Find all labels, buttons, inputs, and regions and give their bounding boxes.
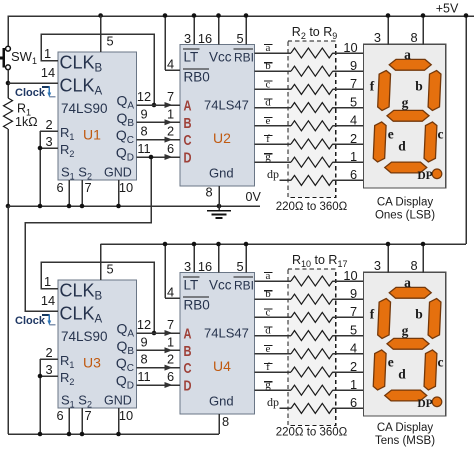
svg-text:10: 10 bbox=[119, 408, 133, 423]
svg-text:1: 1 bbox=[44, 274, 51, 289]
svg-text:74LS90: 74LS90 bbox=[61, 329, 108, 344]
svg-text:4: 4 bbox=[350, 341, 357, 356]
svg-text:Ones (LSB): Ones (LSB) bbox=[375, 210, 435, 222]
svg-text:2: 2 bbox=[45, 117, 52, 132]
svg-text:f: f bbox=[370, 79, 375, 94]
svg-text:7: 7 bbox=[84, 408, 91, 423]
svg-text:RBI: RBI bbox=[234, 51, 254, 65]
svg-text:a: a bbox=[266, 270, 271, 282]
svg-text:5: 5 bbox=[107, 262, 114, 277]
svg-text:8: 8 bbox=[410, 30, 417, 45]
svg-text:Vcc: Vcc bbox=[209, 50, 232, 65]
svg-text:g: g bbox=[402, 323, 409, 338]
svg-text:6: 6 bbox=[350, 395, 357, 410]
svg-text:e: e bbox=[266, 115, 271, 127]
svg-text:f: f bbox=[266, 133, 270, 145]
svg-text:2: 2 bbox=[350, 131, 357, 146]
svg-text:6: 6 bbox=[56, 180, 63, 195]
svg-text:10: 10 bbox=[119, 180, 133, 195]
svg-text:74LS47: 74LS47 bbox=[204, 98, 249, 113]
svg-text:1: 1 bbox=[167, 334, 174, 349]
svg-text:f: f bbox=[370, 307, 375, 322]
svg-text:a: a bbox=[404, 47, 411, 62]
svg-text:10: 10 bbox=[343, 40, 357, 55]
svg-text:U3: U3 bbox=[83, 355, 101, 371]
svg-text:1kΩ: 1kΩ bbox=[15, 115, 38, 129]
svg-text:b: b bbox=[415, 79, 423, 94]
svg-text:4: 4 bbox=[167, 285, 174, 300]
svg-text:B: B bbox=[184, 344, 192, 360]
svg-text:7: 7 bbox=[350, 304, 357, 319]
svg-text:CA Display: CA Display bbox=[377, 197, 433, 209]
svg-text:5: 5 bbox=[236, 31, 243, 46]
svg-text:LT: LT bbox=[184, 50, 199, 65]
svg-text:GND: GND bbox=[104, 166, 132, 180]
svg-text:12: 12 bbox=[137, 89, 151, 104]
svg-text:6: 6 bbox=[56, 408, 63, 423]
svg-text:9: 9 bbox=[350, 286, 357, 301]
svg-text:2: 2 bbox=[45, 345, 52, 360]
svg-text:4: 4 bbox=[350, 113, 357, 128]
svg-text:3: 3 bbox=[45, 134, 52, 149]
svg-text:1: 1 bbox=[44, 46, 51, 61]
svg-text:1: 1 bbox=[350, 149, 357, 164]
svg-text:RB0: RB0 bbox=[184, 298, 210, 313]
svg-text:12: 12 bbox=[137, 317, 151, 332]
svg-text:b: b bbox=[415, 307, 423, 322]
svg-text:14: 14 bbox=[41, 65, 55, 80]
svg-text:1: 1 bbox=[167, 106, 174, 121]
svg-text:Clock: Clock bbox=[15, 315, 46, 327]
svg-text:U4: U4 bbox=[213, 358, 231, 374]
svg-text:d: d bbox=[398, 367, 406, 382]
svg-text:9: 9 bbox=[140, 334, 147, 349]
svg-text:RB0: RB0 bbox=[184, 70, 210, 85]
svg-text:DP: DP bbox=[417, 398, 432, 410]
svg-text:RBI: RBI bbox=[234, 279, 254, 293]
svg-text:+5V: +5V bbox=[436, 2, 459, 16]
svg-text:3: 3 bbox=[184, 259, 191, 274]
svg-text:A: A bbox=[184, 99, 192, 115]
svg-text:14: 14 bbox=[41, 293, 55, 308]
svg-text:a: a bbox=[404, 275, 411, 290]
svg-text:U2: U2 bbox=[213, 130, 231, 146]
svg-text:7: 7 bbox=[84, 180, 91, 195]
svg-text:11: 11 bbox=[137, 369, 150, 384]
svg-text:4: 4 bbox=[167, 57, 174, 72]
svg-text:U1: U1 bbox=[83, 127, 101, 143]
svg-text:74LS90: 74LS90 bbox=[61, 101, 108, 116]
svg-text:c: c bbox=[438, 127, 444, 142]
svg-text:Clock: Clock bbox=[15, 87, 46, 99]
svg-text:8: 8 bbox=[140, 352, 147, 367]
svg-text:c: c bbox=[266, 306, 271, 318]
svg-text:3: 3 bbox=[45, 362, 52, 377]
svg-text:5: 5 bbox=[236, 259, 243, 274]
svg-text:DP: DP bbox=[417, 170, 432, 182]
svg-text:c: c bbox=[266, 78, 271, 90]
svg-text:f: f bbox=[266, 361, 270, 373]
svg-text:8: 8 bbox=[205, 185, 212, 200]
svg-text:d: d bbox=[265, 325, 271, 337]
svg-text:1: 1 bbox=[350, 377, 357, 392]
svg-text:Tens (MSB): Tens (MSB) bbox=[375, 435, 435, 447]
svg-text:10: 10 bbox=[343, 268, 357, 283]
svg-text:7: 7 bbox=[350, 76, 357, 91]
svg-text:a: a bbox=[266, 42, 271, 54]
svg-text:0V: 0V bbox=[246, 190, 262, 204]
svg-text:d: d bbox=[265, 97, 271, 109]
svg-text:A: A bbox=[184, 327, 192, 343]
svg-text:2: 2 bbox=[350, 359, 357, 374]
svg-text:2: 2 bbox=[167, 124, 174, 139]
svg-text:6: 6 bbox=[167, 369, 174, 384]
svg-text:5: 5 bbox=[350, 94, 357, 109]
svg-text:C: C bbox=[184, 133, 192, 149]
svg-text:C: C bbox=[184, 361, 192, 377]
svg-text:Gnd: Gnd bbox=[209, 394, 234, 409]
svg-text:3: 3 bbox=[374, 30, 381, 45]
svg-text:D: D bbox=[184, 379, 192, 395]
svg-text:74LS47: 74LS47 bbox=[204, 326, 249, 341]
svg-text:8: 8 bbox=[140, 124, 147, 139]
svg-text:220Ω to 360Ω: 220Ω to 360Ω bbox=[276, 201, 348, 213]
svg-text:9: 9 bbox=[350, 58, 357, 73]
svg-text:3: 3 bbox=[184, 31, 191, 46]
svg-text:16: 16 bbox=[198, 31, 212, 46]
svg-text:8: 8 bbox=[410, 258, 417, 273]
svg-text:e: e bbox=[388, 355, 394, 370]
svg-text:g: g bbox=[265, 151, 271, 163]
svg-text:g: g bbox=[402, 95, 409, 110]
svg-text:g: g bbox=[265, 379, 271, 391]
svg-text:CA Display: CA Display bbox=[377, 422, 433, 434]
svg-text:220Ω to 360Ω: 220Ω to 360Ω bbox=[276, 427, 348, 439]
svg-text:R2​ to R9​: R2​ to R9​ bbox=[292, 25, 337, 41]
svg-text:5: 5 bbox=[350, 322, 357, 337]
svg-text:D: D bbox=[184, 151, 192, 167]
svg-text:GND: GND bbox=[104, 394, 132, 408]
svg-text:6: 6 bbox=[167, 141, 174, 156]
svg-text:5: 5 bbox=[107, 34, 114, 49]
svg-text:dp: dp bbox=[267, 395, 279, 409]
svg-text:b: b bbox=[265, 288, 271, 300]
svg-text:11: 11 bbox=[137, 141, 150, 156]
svg-text:e: e bbox=[266, 343, 271, 355]
svg-text:Gnd: Gnd bbox=[209, 166, 234, 181]
svg-text:d: d bbox=[398, 139, 406, 154]
svg-text:6: 6 bbox=[350, 167, 357, 182]
svg-text:LT: LT bbox=[184, 278, 199, 293]
svg-text:Vcc: Vcc bbox=[209, 278, 232, 293]
svg-text:3: 3 bbox=[374, 258, 381, 273]
svg-text:c: c bbox=[438, 355, 444, 370]
svg-text:7: 7 bbox=[167, 89, 174, 104]
svg-text:2: 2 bbox=[167, 352, 174, 367]
svg-text:e: e bbox=[388, 127, 394, 142]
svg-text:b: b bbox=[265, 60, 271, 72]
svg-text:9: 9 bbox=[140, 106, 147, 121]
svg-text:16: 16 bbox=[198, 259, 212, 274]
svg-text:dp: dp bbox=[267, 167, 279, 181]
svg-text:7: 7 bbox=[167, 317, 174, 332]
svg-text:8: 8 bbox=[222, 414, 229, 429]
svg-text:B: B bbox=[184, 116, 192, 132]
